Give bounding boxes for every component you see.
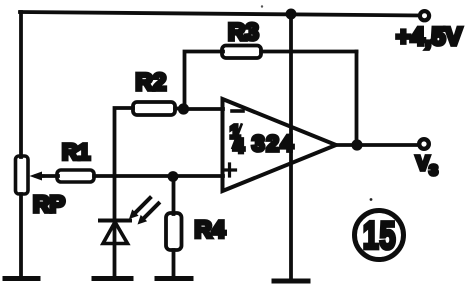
- op-amp minus input sign: [232, 109, 243, 113]
- resistor R4 body: [166, 213, 182, 250]
- photodiode D1 cathode bar: [100, 219, 130, 223]
- wire +4.5V top rail: [20, 12, 421, 16]
- ground under RP: [5, 276, 38, 281]
- wire +input node to R4: [172, 176, 176, 214]
- ground under R4: [157, 276, 191, 281]
- svg-text:324: 324: [252, 131, 295, 156]
- speck noise dot above badge: [370, 198, 373, 201]
- svg-text:R2: R2: [136, 69, 167, 96]
- junction node top rail / power line: [286, 9, 297, 20]
- wire RP wiper to R1: [41, 174, 58, 178]
- figure number 15 badge circle: [355, 211, 404, 260]
- svg-text:4: 4: [234, 137, 245, 158]
- junction output node: [351, 139, 362, 150]
- potentiometer RP body: [16, 156, 29, 194]
- wire feedback down to output node: [355, 52, 359, 146]
- wire op-amp output: [336, 143, 420, 147]
- svg-text:15: 15: [363, 214, 397, 257]
- figure number 15 text: [363, 214, 397, 257]
- speck noise dot top middle: [261, 5, 263, 7]
- wire left rail: [19, 12, 23, 157]
- svg-text:R3: R3: [228, 19, 259, 46]
- wire inverting node to op-amp -in: [183, 107, 223, 111]
- resistor R1 body: [57, 170, 94, 182]
- wire R4 to ground: [172, 250, 176, 276]
- junction +input node: [168, 171, 179, 182]
- wire inverting node up to R3: [185, 52, 224, 110]
- wire R2 to inverting node: [175, 107, 183, 111]
- wire power line through op-amp: [289, 14, 293, 279]
- junction inverting input node: [178, 103, 189, 114]
- op-amp U1 triangle: [223, 99, 337, 191]
- photodiode light arrow 2: [144, 204, 159, 219]
- wire R2 left lead down through photodiode position: [115, 108, 134, 276]
- svg-text:RP: RP: [33, 191, 65, 217]
- wire R1 to +input node: [94, 174, 170, 178]
- wire R3 to feedback corner: [261, 50, 357, 54]
- resistor R2 body: [133, 102, 175, 115]
- terminal +4.5V: [420, 11, 429, 20]
- photodiode light arrow 1: [135, 198, 150, 213]
- label 1/4 fraction slash: [233, 125, 242, 149]
- wire +input node to op-amp +in: [173, 174, 223, 178]
- wire RP to ground: [19, 194, 23, 276]
- potentiometer RP wiper arrow: [36, 174, 43, 177]
- photodiode D1 triangle: [103, 222, 128, 244]
- ground under power line: [274, 279, 308, 284]
- op-amp plus input sign: [224, 164, 236, 176]
- resistor R3 body: [222, 46, 261, 59]
- svg-text:R1: R1: [62, 140, 90, 165]
- terminal V3: [419, 139, 429, 149]
- svg-text:R4: R4: [195, 217, 226, 244]
- ground under photodiode: [94, 276, 131, 281]
- svg-text:+4,5V: +4,5V: [396, 23, 462, 51]
- svg-text:V3: V3: [416, 153, 438, 179]
